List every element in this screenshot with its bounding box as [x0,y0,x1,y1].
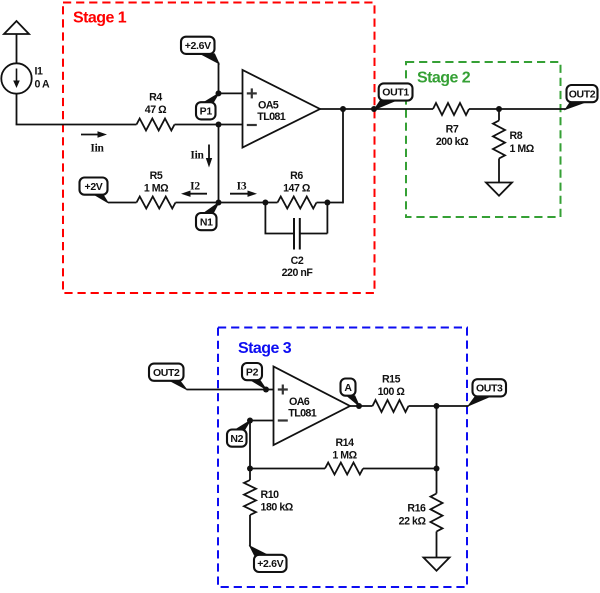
svg-text:P1: P1 [200,106,213,118]
label R6 147ohm [283,170,311,195]
current source I1 [1,63,31,93]
svg-text:R16: R16 [407,503,426,515]
resistor R4 [137,119,175,131]
wire N2 column [249,421,251,469]
label R4 47ohm [145,92,167,117]
wire R4 to op-amp inverting input [175,124,243,126]
resistor R15 [373,400,409,412]
node dot R8 top [496,106,502,112]
label R8 1Mohm [510,130,535,155]
wire I1 to R4 [16,94,137,125]
svg-text:22 kΩ: 22 kΩ [399,516,427,528]
svg-text:OUT3: OUT3 [476,383,503,395]
flag N1 [196,203,219,231]
svg-text:R5: R5 [150,170,163,182]
current arrow I2 [181,191,207,197]
wire R15 node to lower rail [436,406,438,469]
wire N1 to R6 [219,202,278,204]
svg-text:100 Ω: 100 Ω [378,386,406,398]
label R16 22kohm [399,503,427,528]
svg-text:Stage 1: Stage 1 [73,10,127,27]
supply flag +2.6V stage1 [181,37,219,64]
node dot R15 right [434,403,440,409]
svg-text:147 Ω: 147 Ω [283,183,311,195]
svg-text:1 MΩ: 1 MΩ [144,183,169,195]
wire R7 to OUT2 [469,108,566,110]
wire R16 to ground [436,532,438,558]
flag OUT3 [468,379,506,406]
label I1 0A [35,66,51,91]
svg-text:R6: R6 [290,170,303,182]
flag A [341,379,360,407]
stage 3 boundary box [218,328,467,588]
svg-text:R10: R10 [261,489,280,501]
stage 3 title [238,340,292,357]
supply flag +2V [80,178,109,203]
svg-text:+2V: +2V [85,181,103,193]
svg-text:I2: I2 [190,181,200,193]
wire R8 to ground [498,159,500,183]
label R10 180kohm [261,489,294,514]
wire +2V to R5 [108,202,137,204]
capacitor C2 branch left [265,203,295,234]
capacitor C2 branch right [300,203,328,234]
svg-text:+2.6V: +2.6V [185,40,211,52]
node dot lower rail left [247,466,253,472]
svg-text:R4: R4 [149,92,162,104]
stage 2 boundary box [406,62,561,217]
svg-text:Iin: Iin [190,150,204,162]
svg-text:R15: R15 [382,374,401,386]
svg-text:+2.6V: +2.6V [257,558,283,570]
resistor R5 [137,197,176,209]
node dot A [356,403,362,409]
wire R15 to OUT3 [409,405,469,407]
node dot inverting input N1 column [216,122,222,128]
label R14 1Mohm [332,437,357,462]
label R5 1Mohm [144,170,169,195]
wire N1 column [218,125,220,203]
resistor R7 [433,103,469,115]
svg-text:R8: R8 [510,130,523,142]
wire output of OA6 to R15 [350,405,373,407]
node dot R6 left [262,200,268,206]
flag OUT2 (stage3 input) [149,364,187,390]
svg-text:0 A: 0 A [35,79,51,91]
svg-text:Iin: Iin [90,143,104,155]
resistor R16 [431,469,443,532]
stage 1 boundary box [63,3,375,294]
feedback wire from output [342,109,344,203]
wire R10 to +2.6V [249,515,251,547]
flag N2 [227,421,250,447]
svg-text:A: A [344,382,352,394]
current arrow Iin (input) [81,131,107,137]
wire OUT2 to op-amp non-inverting input [187,389,274,391]
flag P2 [242,363,266,390]
node dot N1 [216,200,222,206]
svg-text:OUT2: OUT2 [153,367,180,379]
svg-text:P2: P2 [246,366,259,378]
supply flag +2.6V stage3 [250,546,287,572]
svg-text:I3: I3 [237,181,247,193]
label C2 220nF [282,255,314,279]
svg-text:OUT1: OUT1 [382,87,409,99]
svg-text:1 MΩ: 1 MΩ [332,450,357,462]
svg-text:R14: R14 [335,437,354,449]
svg-text:TL081: TL081 [288,408,316,420]
svg-text:R7: R7 [446,124,459,136]
svg-text:1 MΩ: 1 MΩ [510,143,535,155]
label Iin (down) [190,150,204,162]
node dot N2 [247,418,253,424]
wire R5 to N1 [176,202,219,204]
node dot OUT1 [371,106,377,112]
node dot P1 [216,90,222,96]
wire R6 to feedback column [317,202,344,204]
antenna terminal [4,21,29,34]
current arrow Iin (down) [206,145,212,168]
svg-text:47 Ω: 47 Ω [145,104,167,116]
ground stage2 [486,183,512,196]
wire P1 node to op-amp non-inverting input [219,92,243,94]
lower rail right [363,468,437,470]
resistor R8 [493,109,505,159]
svg-text:200 kΩ: 200 kΩ [436,136,469,148]
svg-text:C2: C2 [291,255,304,267]
flag OUT1 [374,83,412,109]
op-amp OA5 TL081 [243,70,321,148]
label I3 [237,181,247,193]
svg-text:N2: N2 [230,433,243,445]
wire N2 to op-amp inverting input [250,420,274,422]
stage 1 title [73,10,127,27]
svg-text:220 nF: 220 nF [282,267,314,279]
label R15 100ohm [378,374,406,399]
ground stage3 [424,558,450,571]
node dot lower rail right [434,466,440,472]
wire antenna to I1 [16,34,18,64]
wire op-amp output to R7 [320,108,433,110]
resistor R10 [244,469,256,516]
svg-text:OA6: OA6 [289,396,310,408]
node dot feedback tap [340,106,346,112]
stage 2 title [417,70,471,87]
flag OUT2 (stage2) [565,85,597,109]
svg-text:Stage 3: Stage 3 [238,340,292,357]
resistor R6 [278,197,317,209]
resistor R14 [325,463,363,475]
svg-text:TL081: TL081 [257,111,285,123]
node dot P2 [263,387,269,393]
svg-text:180 kΩ: 180 kΩ [261,502,294,514]
label Iin (input) [90,143,104,155]
lower rail left [250,468,325,470]
wire +2.6V to P1 node [218,63,220,94]
svg-text:N1: N1 [200,216,213,228]
svg-text:OA5: OA5 [258,99,279,111]
label I2 [190,181,200,193]
capacitor C2 [294,218,300,250]
label R7 200kohm [436,124,469,149]
op-amp OA6 TL081 [274,367,351,446]
svg-text:OUT2: OUT2 [569,88,596,100]
node dot R6 right [324,200,330,206]
current arrow I3 [230,191,257,197]
svg-text:I1: I1 [35,66,43,78]
flag P1 [196,93,219,119]
svg-text:Stage 2: Stage 2 [417,70,471,87]
